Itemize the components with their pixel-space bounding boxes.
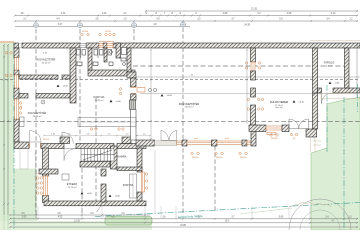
hall pier 1 [182,140,187,146]
wc cluster wall x70 [70,48,76,103]
window markers top wall [81,33,83,35]
inner vertical dim x247 [246,50,248,124]
elevation marker 7 [109,195,112,197]
vestibule wall x127 [127,48,131,72]
svg-text:6.2 m²: 6.2 m² [326,65,332,68]
kt door markers [290,133,292,135]
svg-text:+0.00: +0.00 [116,101,122,103]
axis bubble C [132,23,137,28]
svg-text:150/240: 150/240 [240,157,247,159]
bottom dim line 2 [10,218,358,220]
svg-text:5.47: 5.47 [58,24,63,26]
staircase [81,149,114,162]
window markers lower-right wall [145,173,147,175]
door frames wing-hall [131,86,137,88]
green strip inner line 2 [7,45,9,230]
building site boundary diagonal [95,203,360,217]
table etkezo [62,174,69,180]
svg-text:+0.00: +0.00 [63,86,69,88]
urinal marks [110,51,113,54]
window markers kt left wall [245,62,247,64]
sinks row 2 [77,62,82,66]
axis grid line x183 [182,28,184,214]
tan line above top wall right [310,40,360,42]
glass block panel [130,100,136,109]
wall y75 left part [19,75,58,79]
window top w2 [99,44,103,47]
contour line [240,208,292,214]
orange marker kamra door [118,128,120,130]
tarolo bottom wall left piece [318,88,322,93]
exterior wall top [14,43,19,48]
hall pier 2 [212,140,218,146]
window lower-right [141,172,144,192]
overall dimension line top [145,10,358,12]
rain pipe diagonal [97,206,102,212]
elevation marker 3 [329,82,332,84]
axis grid line x96 [95,98,97,202]
hall window 1 [187,141,212,145]
axis bubble D [181,22,186,27]
interior wall below stairs [80,162,110,168]
svg-text:4.08: 4.08 [287,13,292,15]
entrance threshold [155,141,177,146]
svg-text:4.32: 4.32 [61,13,66,15]
radiator hall left [137,88,145,93]
orange marker kitchen [90,128,92,130]
dim line left of lower wing [35,150,37,212]
konyha counter strip [130,174,137,198]
green strip inner line 1 [3,45,5,230]
wing-hall wall upper [131,78,137,87]
bottom dim line 1 [10,214,150,216]
left dim line 2 [7,45,9,215]
orange fence line top-left [0,41,14,43]
right dim line [356,45,358,97]
svg-text:150/240: 150/240 [271,138,278,140]
svg-text:KÜLÖN TEREM: KÜLÖN TEREM [270,101,288,104]
toilets row 1 [77,50,81,56]
cubicle partitions [80,48,82,58]
axis grid line x134 [133,29,135,48]
svg-text:FOGYASZTÓTÉR: FOGYASZTÓTÉR [37,59,56,62]
exterior wall lower-wing right [137,148,142,172]
hall column circles [148,88,151,91]
inner horizontal dim y93.5 [140,93,345,95]
bar counter fogyasztoter2 [20,117,25,127]
corridor markers [119,88,121,90]
wc cluster wall x104 [104,48,107,62]
driveway arc inner [300,210,340,230]
section line y77 [136,76,360,78]
green verge strip left [0,43,14,230]
exterior wall right [345,48,350,88]
interior wall etkezo-konyha [101,169,106,176]
svg-text:KONYHA: KONYHA [123,184,134,187]
wall x313 long [313,93,318,129]
dimension chain line 2 [15,20,358,22]
orange sill line top windows [99,41,114,43]
svg-text:34.85: 34.85 [180,225,186,227]
kulon terem french door [289,119,299,129]
wing-hall wall lower thin [131,109,137,140]
terrace lines right of kt wall [313,140,321,142]
svg-text:+0.00: +0.00 [167,95,173,97]
svg-text:90/240: 90/240 [105,31,111,33]
kt window bottom [266,126,282,130]
wall band mid1 [41,144,64,149]
green lawn bottom-left [0,169,37,231]
exterior wall left [14,48,19,58]
driveway arc [289,199,351,230]
left dim line 1 [3,45,5,215]
window markers left wall upper [5,52,7,54]
door arc band x29-41 [30,131,41,142]
survey line x357 [357,84,359,112]
wc cluster wall x116 [116,43,121,58]
svg-text:KONYHA: KONYHA [94,95,105,99]
kitchen counter [78,118,136,127]
hall window w0 [177,141,183,145]
hall window 2 [217,141,242,145]
svg-text:gres lap: gres lap [275,107,283,109]
svg-text:12.15 m²: 12.15 m² [68,186,77,189]
svg-text:2.10: 2.10 [331,13,336,15]
interior wall stairs-kamra [111,146,118,169]
inner vertical dim x151 [150,50,152,139]
elevation marker 2 [110,100,113,102]
svg-text:(D): (D) [293,138,296,140]
svg-text:4.55: 4.55 [58,217,63,219]
bottom dim line 3 [10,222,358,224]
hedge planting strip [105,217,152,226]
wing-hall wall mid [131,94,137,100]
axis bubble B [78,23,83,28]
wall band mid3 [117,144,146,149]
door frame band x29-41 [29,143,31,149]
hall window 3 [247,141,251,145]
radiator kulon terem [267,133,276,135]
door arc band up-left [62,132,73,143]
dim line right of wing [154,150,156,214]
window left w2 [15,99,19,119]
svg-text:24.35: 24.35 [244,25,250,27]
kt wall mid block [251,88,256,97]
wall band mid2 [76,144,114,149]
svg-text:90/240: 90/240 [82,31,88,33]
door arc band x64-76 [64,149,76,161]
svg-text:145.30 m²: 145.30 m² [184,105,193,108]
terrace tan outline right [321,94,360,99]
circled ref marker F [41,100,45,104]
dim row above band [44,135,150,137]
kulon terem left wall [251,48,256,62]
wall band left ext [14,142,29,149]
svg-text:32.54 m²: 32.54 m² [42,62,51,65]
svg-text:5.85: 5.85 [279,217,284,219]
hall bottom wall seg1 [136,140,155,146]
svg-text:90/210: 90/210 [43,139,49,141]
svg-text:+0.00: +0.00 [115,196,121,198]
window left w1b [15,75,19,88]
axis bubble A [34,23,39,28]
interior wall left room [39,169,58,174]
svg-text:4.88: 4.88 [223,13,228,15]
axis grid line x36 [35,29,37,218]
tarolo left wall [313,48,318,93]
svg-text:150/240: 150/240 [216,157,223,159]
elevation marker 6 [81,192,84,194]
axis datum line [15,26,190,28]
elevation marker 5 [293,100,296,102]
svg-text:2.65: 2.65 [22,217,27,219]
green garden right [311,97,360,230]
landing step outside door [20,148,28,169]
window left w1 [15,58,19,71]
svg-text:150: 150 [37,174,40,176]
terrace edge lines below foot [310,137,312,152]
svg-text:240: 240 [21,105,23,108]
elevation marker 1 [57,85,60,87]
wall foot bottom [306,129,317,137]
site boundary left x14 [13,43,15,230]
interior wall kamra-konyha [117,167,142,171]
escarpment marks [290,203,331,207]
tarolo bottom wall right piece [333,88,360,93]
svg-text:13.55: 13.55 [74,221,80,223]
wc cluster wall x88 [88,48,92,70]
tarolo door leaf [322,93,333,104]
window markers hall bottom [191,152,193,154]
axis line y121.5 [0,121,360,123]
axis line y79.6 [0,79,360,81]
axis grid line x82 lower [81,148,83,214]
site boundary x327 [326,85,328,152]
svg-text:20.03 m²: 20.03 m² [95,99,104,102]
svg-text:150/240: 150/240 [192,157,199,159]
kulon terem bottom wall [249,125,266,132]
exterior wall lower-wing bottom [44,201,146,206]
extension lines [38,206,344,219]
fogyasztoter2 wall y93 [19,94,28,99]
svg-text:p=90: p=90 [194,138,198,140]
window markers lower-left wall [37,177,39,179]
door markers kt wall lower [247,98,249,100]
svg-text:-0.02: -0.02 [335,83,341,85]
window lower-left [44,176,48,196]
svg-text:KAMRA: KAMRA [118,156,127,159]
svg-text:28.70 m²: 28.70 m² [33,115,42,118]
green band under bottom dimension lines [0,221,152,230]
site boundary right x344 [343,97,345,230]
door jamb stub 1 [60,137,70,144]
svg-text:FOGYASZTÓTÉR: FOGYASZTÓTÉR [28,112,47,115]
axis line y66 [133,65,345,67]
svg-text:+4.10: +4.10 [299,101,305,103]
svg-text:21.35: 21.35 [251,9,257,11]
axis grid line x215 [214,146,216,213]
window in kt left wall [251,62,255,71]
svg-text:p=90: p=90 [225,138,229,140]
hall bottom wall corner x251 [251,131,256,146]
window markers left wall mid [19,102,21,104]
exterior wall lower-wing left [43,148,49,176]
elevation marker 4 [161,94,164,96]
wc cluster bottom wall [88,70,135,76]
vestibule band y72 [127,72,136,78]
svg-text:1.40: 1.40 [102,13,107,15]
svg-text:+0.00: +0.00 [87,193,93,195]
axis grid line x80 [79,29,81,148]
door jamb stub 2 [122,137,131,144]
svg-text:16.5: 16.5 [225,221,230,223]
top wall gap lines [19,43,23,45]
bottom dim line 4 [10,226,358,228]
window top w1 glazed [80,44,86,47]
hall pier 3 [242,140,247,146]
window top w3 [107,44,113,47]
dimension chain line 1 [15,15,358,17]
hall entrance french door [161,130,169,140]
window markers kulon terem [270,134,272,136]
